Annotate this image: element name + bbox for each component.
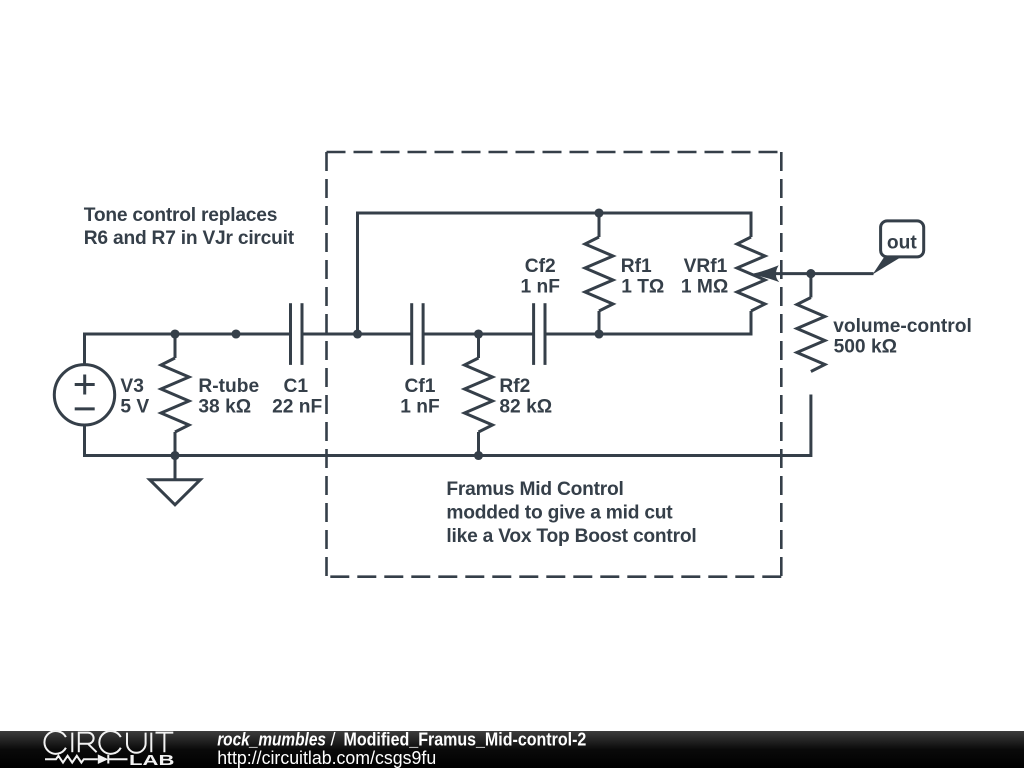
junction: Rf2 top on mid rail [474, 329, 483, 338]
svg-text:Rf1: Rf1 [621, 256, 652, 277]
svg-text:out: out [887, 233, 917, 254]
svg-text:22 nF: 22 nF [272, 397, 322, 418]
svg-text:5 V: 5 V [120, 397, 149, 418]
svg-text:Tone control replaces: Tone control replaces [84, 205, 277, 226]
CircuitLab logo resistor-diode row [45, 755, 128, 764]
capacitor Cf1 plates [410, 303, 413, 365]
svg-text:500 kΩ: 500 kΩ [834, 337, 897, 358]
svg-text:LAB: LAB [129, 753, 174, 768]
svg-text:R6 and R7 in VJr circuit: R6 and R7 in VJr circuit [84, 228, 295, 249]
V3 minus sign [75, 407, 95, 410]
svg-text:1 MΩ: 1 MΩ [681, 277, 728, 298]
svg-text:82 kΩ: 82 kΩ [499, 397, 552, 418]
svg-text:V3: V3 [120, 376, 143, 397]
wire: V3 bottom lead + bottom ground rail to volume-control [85, 395, 811, 456]
junction: R-tube top on mid rail [170, 329, 179, 338]
VRf1 wiper arrow [754, 267, 778, 281]
junction: Rf1 top on top rail [594, 208, 603, 217]
svg-text:modded to give a mid cut: modded to give a mid cut [446, 503, 673, 524]
wire: wiper to junction and out flag [768, 272, 874, 275]
svg-text:Rf2: Rf2 [499, 376, 530, 397]
voltage source V3 circle [54, 365, 114, 425]
capacitor Cf2 plates [532, 303, 535, 365]
wire: V3 top lead + mid rail to C1 [85, 334, 291, 365]
svg-text:like a Vox Top Boost control: like a Vox Top Boost control [446, 526, 696, 547]
wire: Cf1 to Cf2 [423, 333, 533, 336]
ground symbol triangle [150, 480, 201, 505]
capacitor C1 plates [289, 303, 292, 365]
wire: node up + top rail + VRf1 top lead [358, 213, 752, 334]
junction: Rf1 bottom on mid rail [594, 329, 603, 338]
resistor volume-control [809, 274, 812, 298]
junction: C1-Cf1 node to top rail [353, 329, 362, 338]
junction: Rf2 bottom on bottom rail [474, 451, 483, 460]
resistor R-tube [174, 334, 177, 456]
junction: mid rail node [231, 329, 240, 338]
potentiometer VRf1 zigzag [737, 237, 765, 311]
svg-text:C1: C1 [284, 376, 309, 397]
out flag box [881, 221, 924, 257]
junction: ground node on bottom rail [170, 451, 179, 460]
svg-text:1 TΩ: 1 TΩ [621, 277, 664, 298]
svg-text:R-tube: R-tube [198, 376, 259, 397]
svg-text:Cf2: Cf2 [525, 256, 556, 277]
svg-text:Cf1: Cf1 [405, 376, 436, 397]
V3 plus sign [75, 375, 95, 395]
wire: Cf2 to VRf1 bottom lead [545, 311, 751, 334]
logo diode triangle [98, 754, 109, 764]
junction: wiper node / volume-control top [806, 269, 815, 278]
resistor Rf2 [477, 334, 480, 358]
svg-text:Framus Mid Control: Framus Mid Control [446, 479, 623, 500]
out flag tail [873, 257, 902, 275]
svg-text:VRf1: VRf1 [684, 256, 728, 277]
ground symbol stem [174, 456, 177, 480]
wire: C1 to Cf1 [302, 333, 412, 336]
svg-text:http://circuitlab.com/csgs9fu: http://circuitlab.com/csgs9fu [217, 748, 436, 768]
svg-text:1 nF: 1 nF [520, 277, 560, 298]
svg-text:volume-control: volume-control [833, 316, 972, 337]
resistor Rf1 [598, 213, 601, 237]
svg-text:38 kΩ: 38 kΩ [198, 397, 251, 418]
dashed subcircuit boundary box [327, 152, 782, 577]
svg-text:rock_mumbles/Modified_Framus_M: rock_mumbles/Modified_Framus_Mid-control… [217, 729, 586, 749]
svg-text:1 nF: 1 nF [400, 397, 440, 418]
CircuitLab logo CIRCUIT wordmark [44, 731, 173, 754]
footer bar [0, 731, 1024, 768]
